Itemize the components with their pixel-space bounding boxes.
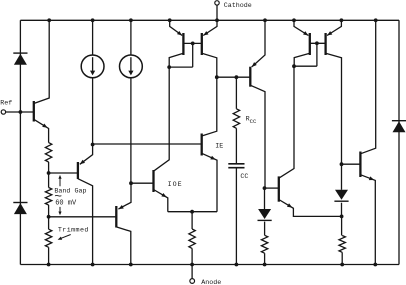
svg-text:60 mV: 60 mV (55, 199, 77, 207)
svg-text:CC: CC (240, 173, 248, 181)
svg-text:Ref: Ref (0, 100, 12, 108)
svg-text:CC: CC (250, 118, 257, 125)
svg-text:IE: IE (215, 142, 223, 150)
svg-text:Trimmed: Trimmed (58, 227, 89, 235)
svg-text:IOE: IOE (168, 181, 183, 189)
svg-text:Cathode: Cathode (224, 2, 252, 10)
svg-text:Anode: Anode (201, 279, 221, 285)
